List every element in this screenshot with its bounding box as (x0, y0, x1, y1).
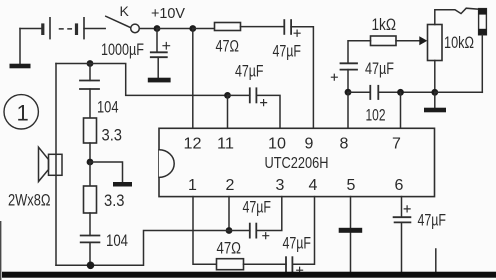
potentiometer VR1 10k (428, 8, 479, 92)
resistor R3 47ohm (bottom) (217, 259, 244, 270)
wire (C2 to pin 9) (291, 27, 313, 129)
capacitor C10 104 (bottom) (81, 213, 100, 265)
wire (pin 1 to R3) (193, 197, 217, 265)
svg-text:12: 12 (184, 135, 202, 152)
resistor R5 3.3 (bottom) (84, 162, 97, 213)
svg-text:1kΩ: 1kΩ (372, 15, 397, 34)
ground (under pot) (424, 92, 446, 112)
svg-text:104: 104 (106, 231, 128, 250)
node (pin 2 junction) (226, 227, 233, 234)
capacitor C6 47uF (pin3-pin4) (286, 257, 303, 273)
battery GB (43, 18, 84, 39)
ground (battery negative) (10, 29, 31, 69)
node (1000uF junction) (154, 25, 161, 32)
wire (pin 11 riser) (227, 95, 229, 128)
capacitor C2 47uF (top) (284, 20, 300, 36)
wire (89, 143, 91, 162)
node (mid divider junction) (87, 159, 94, 166)
speaker LS 2Wx8ohm (39, 147, 63, 181)
node (speaker bottom junction) (87, 262, 95, 270)
wire (node to right corner, down to pin11 line) (56, 64, 228, 96)
svg-text:47µF: 47µF (243, 197, 272, 216)
capacitor C7 47uF (pin2-pin3) (229, 224, 269, 239)
capacitor C5 102 (370, 86, 378, 99)
capacitor C8 47uF (pin 6) (394, 197, 411, 272)
svg-text:47Ω: 47Ω (217, 238, 242, 257)
ground (under C1) (148, 78, 171, 83)
resistor R2 1k (348, 36, 419, 63)
wire (C6 to pin 4) (292, 197, 314, 265)
page border bottom (2, 272, 496, 278)
wire (switch to +10V node) (139, 28, 157, 30)
connector J1 (output jack) (478, 8, 486, 92)
svg-text:9: 9 (305, 135, 314, 152)
wire (435, 91, 483, 93)
svg-text:5: 5 (347, 177, 356, 194)
wire (C3 to pin 10) (256, 95, 280, 128)
svg-text:47Ω: 47Ω (216, 36, 240, 55)
svg-text:47µF: 47µF (283, 234, 312, 253)
wire (IC right edge drop) (435, 249, 437, 272)
svg-text:3: 3 (276, 177, 285, 194)
ground (mid divider) (90, 162, 132, 187)
capacitor C1 1000uF (151, 29, 170, 78)
wire (pin 8 riser) (347, 92, 349, 128)
wire (241, 26, 285, 28)
wire (pin 7 riser) (400, 92, 402, 128)
svg-text:47µF: 47µF (235, 62, 264, 81)
page border left (0, 221, 1, 280)
wire (C7 to pin 3) (256, 197, 282, 231)
svg-text:4: 4 (309, 177, 318, 194)
svg-text:1: 1 (188, 177, 197, 194)
svg-text:102: 102 (366, 105, 386, 124)
arrow (wiper of pot) (419, 36, 427, 45)
wire (ground to battery) (20, 28, 43, 30)
wire (378, 91, 435, 93)
wire (speaker branch) (55, 64, 57, 266)
resistor R4 3.3 (top) (84, 118, 97, 143)
svg-text:K: K (120, 3, 130, 19)
svg-text:11: 11 (217, 135, 234, 152)
node (speaker / feedback node) (87, 60, 94, 67)
svg-text:8: 8 (340, 135, 349, 152)
wire (battery to switch) (84, 28, 105, 30)
svg-text:47µF: 47µF (365, 59, 394, 78)
svg-text:2: 2 (226, 177, 235, 194)
figure number circle 1 (4, 95, 38, 129)
capacitor C3 47uF (pin11-pin10) (228, 88, 267, 105)
svg-text:10kΩ: 10kΩ (444, 33, 474, 52)
svg-text:47µF: 47µF (273, 41, 302, 60)
wire (pin 12 riser) (192, 29, 194, 129)
node (pin 11 junction) (224, 92, 231, 99)
svg-text:7: 7 (392, 135, 401, 152)
svg-text:+10V: +10V (151, 5, 185, 22)
svg-text:3.3: 3.3 (102, 125, 123, 144)
node (pot wiper junction) (431, 89, 438, 96)
node (pin 7 junction) (397, 89, 404, 96)
wire (157, 28, 193, 30)
wire (193, 28, 215, 30)
svg-text:1000µF: 1000µF (101, 40, 144, 59)
svg-text:6: 6 (395, 177, 404, 194)
svg-text:UTC2206H: UTC2206H (265, 155, 329, 172)
wire (pin 5 drop) (350, 197, 352, 272)
node (pin 8 junction) (345, 89, 352, 96)
svg-text:3.3: 3.3 (104, 191, 125, 210)
switch K (106, 16, 140, 32)
ground (pin 5) (339, 228, 363, 233)
speaker chain: capacitor C9 104 (top) (80, 64, 99, 119)
svg-text:10: 10 (268, 135, 286, 152)
svg-text:1: 1 (17, 101, 29, 126)
IC U1 UTC2206H (159, 128, 435, 196)
svg-text:47µF: 47µF (418, 210, 447, 229)
capacitor C4 47uF (right, pin8) (331, 63, 357, 92)
wire (244, 263, 287, 265)
wire (348, 91, 370, 93)
node (pin 12 junction) (189, 25, 196, 32)
svg-text:2Wx8Ω: 2Wx8Ω (8, 190, 51, 209)
wire (pin2 node left to speaker net) (56, 231, 229, 266)
svg-text:104: 104 (97, 98, 119, 117)
wire (pin 2 drop) (228, 197, 230, 231)
resistor R1 47ohm (top) (215, 23, 241, 31)
